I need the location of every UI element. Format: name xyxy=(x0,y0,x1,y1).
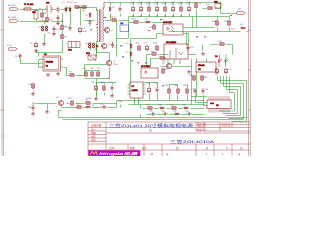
resistor R14 xyxy=(146,4,151,13)
diode D1 snubber xyxy=(85,12,91,18)
svg-text:AC-L(IN): AC-L(IN) xyxy=(8,4,16,7)
wire low-voltage rail into U6 xyxy=(97,82,117,84)
resistor R29 xyxy=(165,85,170,94)
resistor R37 xyxy=(159,57,167,63)
wire opto outputs xyxy=(184,27,187,29)
wire nested loop 1 xyxy=(218,81,247,122)
diode D12 xyxy=(173,111,180,115)
resistor R27 xyxy=(68,98,73,106)
capacitor C10 xyxy=(28,105,35,111)
ground GND5 xyxy=(94,97,97,101)
resistor R11 sense xyxy=(90,68,94,77)
svg-text:U3 PC817: U3 PC817 xyxy=(163,22,173,24)
fuse F1 xyxy=(24,3,34,10)
resistor R18 xyxy=(212,20,218,26)
transistor Q4 xyxy=(162,63,172,69)
resistor R24 xyxy=(154,43,159,52)
transistor Q5 xyxy=(56,97,64,106)
capacitor C11 xyxy=(130,4,135,13)
wire nested loop 3 xyxy=(224,87,241,116)
ground GND3 xyxy=(46,73,49,77)
resistor R35 xyxy=(85,100,91,105)
capacitor C21 xyxy=(108,82,114,91)
value label 10k xyxy=(204,35,206,38)
svg-text:2024-10-10: 2024-10-10 xyxy=(222,123,234,125)
wire nested loop 4 xyxy=(223,90,238,114)
svg-text:U5 PC817: U5 PC817 xyxy=(141,66,151,68)
wire right verticals xyxy=(217,17,219,20)
resistor R1 xyxy=(38,25,44,31)
varistor RV1 xyxy=(46,16,54,22)
wire top-right resistor row xyxy=(196,9,198,27)
capacitor C4 xyxy=(65,25,72,31)
wire TL431 area xyxy=(196,59,198,63)
resistor R7 xyxy=(86,42,91,48)
resistor R9 gate xyxy=(69,72,75,77)
value label 102 xyxy=(148,29,150,32)
capacitor C18 xyxy=(213,68,219,75)
diode D9 xyxy=(85,105,95,108)
diode D6 xyxy=(126,43,132,49)
sheet border right xyxy=(248,0,250,156)
svg-text:LM358: LM358 xyxy=(132,90,139,92)
capacitor C9 xyxy=(15,53,22,59)
bridge rectifier diode D1a xyxy=(62,2,67,13)
junction dots secondary xyxy=(133,2,134,3)
value label 10uF xyxy=(104,16,106,19)
wire nested loop 5 xyxy=(220,93,235,112)
capacitor C17 xyxy=(144,43,149,52)
wire cap drops to loops xyxy=(217,76,219,81)
IC U4 xyxy=(164,42,188,64)
wire bridge to bulk rail xyxy=(77,8,97,11)
resistor R39 xyxy=(218,41,225,45)
connector CN3 24V xyxy=(237,8,245,14)
resistor R16 xyxy=(178,4,183,13)
IC U8 output driver xyxy=(207,96,231,113)
wire AC-L line xyxy=(20,9,25,11)
capacitor C19 xyxy=(224,68,232,75)
snubber RC2 xyxy=(86,53,96,60)
ground GND2 xyxy=(34,49,37,53)
svg-text:AC-N(IN): AC-N(IN) xyxy=(8,16,17,19)
capacitor C23 xyxy=(146,83,151,93)
snubber module RC1 xyxy=(68,42,80,52)
resistor R13 xyxy=(28,83,34,89)
optocoupler U5 xyxy=(141,66,158,78)
capacitor CX2 xyxy=(56,7,59,13)
bridge rectifier diode D1b xyxy=(67,2,74,13)
capacitor C13 xyxy=(154,4,159,13)
resistor R33 xyxy=(189,75,195,81)
wire standby row xyxy=(35,103,57,105)
ground GND4 xyxy=(56,72,59,76)
wire aux winding row xyxy=(90,43,92,51)
resistor R10 sense xyxy=(83,68,88,77)
logo banner xyxy=(88,150,140,156)
value label 100R xyxy=(122,55,124,58)
svg-text:68uF: 68uF xyxy=(82,31,87,33)
wire feedback long row xyxy=(187,27,215,29)
wire secondary mid rail xyxy=(129,16,230,18)
resistor R36 xyxy=(151,51,157,55)
COMPONENTS-RIGHT xyxy=(56,2,246,116)
resistor R17 xyxy=(206,4,213,9)
zone tick marks xyxy=(2,29,4,31)
value label 473 xyxy=(196,35,198,38)
capacitor C15 xyxy=(186,4,191,13)
resistor R38 xyxy=(183,85,188,94)
value label 12V xyxy=(131,59,133,62)
capacitor C8 vcc xyxy=(30,42,38,49)
wire feedback row xyxy=(129,22,134,24)
diode D10 xyxy=(158,105,165,110)
earth ground E1 xyxy=(52,32,56,35)
diode D5 xyxy=(145,19,151,24)
IC U1 PWM controller xyxy=(40,54,63,71)
wire U4 sense drop xyxy=(186,32,188,46)
svg-text:KIA431: KIA431 xyxy=(198,64,205,67)
wire secondary right area xyxy=(147,54,151,56)
MOSFET Q1 xyxy=(106,60,118,65)
resistor R12 sense xyxy=(97,68,102,77)
wire diode rows xyxy=(143,108,147,110)
resistor R6 snubber xyxy=(81,6,87,13)
svg-text:三笠ZOL401 20寸模拟电视电源: 三笠ZOL401 20寸模拟电视电源 xyxy=(109,122,193,128)
capacitor C27 xyxy=(191,88,197,94)
svg-text:设计: 设计 xyxy=(91,128,96,132)
wire top cap stubs xyxy=(133,3,135,6)
capacitor C20 xyxy=(91,82,98,91)
wire vcc feed xyxy=(21,59,39,64)
shunt U6 TL431 xyxy=(196,62,216,72)
capacitor C26 xyxy=(161,111,168,116)
wire 24V branch xyxy=(221,3,237,14)
ground GND10 xyxy=(110,94,113,98)
value label 471 xyxy=(162,84,164,87)
svg-text:数量: 数量 xyxy=(130,146,135,150)
wire snubber row xyxy=(85,20,95,22)
svg-text:2024-10-27: 2024-10-27 xyxy=(222,126,234,128)
COMPONENTS xyxy=(7,2,129,116)
diode D3 xyxy=(195,2,202,8)
wire gate drive xyxy=(64,68,70,76)
svg-text:Mingda电源: Mingda电源 xyxy=(99,151,140,156)
value label 330R xyxy=(90,28,92,31)
svg-text:NTC1: NTC1 xyxy=(110,17,116,19)
wire CX1 taps xyxy=(36,10,38,11)
resistor R21 xyxy=(132,19,139,24)
resistor R30 xyxy=(174,85,179,94)
capacitor C12 xyxy=(138,4,143,13)
connector CN2 AC-N xyxy=(8,16,18,22)
resistor R4 startup xyxy=(61,33,68,39)
resistor R31 xyxy=(146,105,153,110)
resistor R23 xyxy=(136,43,141,52)
wire U6 surroundings xyxy=(144,83,150,88)
resistor R0 xyxy=(41,12,47,18)
capacitor C14 xyxy=(170,4,175,13)
capacitor C24 xyxy=(154,83,159,93)
resistor R34 xyxy=(201,75,208,81)
sheet border left xyxy=(1,0,3,156)
capacitor C7 xyxy=(111,42,118,49)
ground GND8 xyxy=(45,110,48,114)
capacitor C25 xyxy=(149,111,156,116)
wire mid long vertical xyxy=(116,21,118,39)
resistor R8 xyxy=(92,42,98,51)
resistor R25 xyxy=(162,68,169,74)
ground GND11 xyxy=(187,70,190,74)
ground GND7 xyxy=(31,112,34,116)
resistor R2 xyxy=(45,25,51,34)
wire bulk cap taps xyxy=(80,8,82,26)
svg-text:F1 T3.15A: F1 T3.15A xyxy=(24,3,34,6)
capacitor C29 xyxy=(185,111,192,116)
wire bottom bus 2 xyxy=(63,119,244,121)
resistor R15 xyxy=(162,4,167,13)
wire sense resistor rail xyxy=(85,70,101,72)
value label 1N4148 xyxy=(120,44,123,47)
resistor R32 xyxy=(170,105,177,110)
svg-text:项目名称: 项目名称 xyxy=(91,123,102,127)
svg-text:OB2269: OB2269 xyxy=(46,61,54,63)
wire varistor drop xyxy=(47,14,49,17)
svg-text:比例: 比例 xyxy=(109,146,114,150)
IC U2 xyxy=(120,23,129,32)
resistor R26 xyxy=(100,82,105,91)
IC U7 secondary controller xyxy=(128,82,146,98)
transistor Q2 xyxy=(104,27,114,32)
svg-text:VCC1: VCC1 xyxy=(7,45,13,47)
diode D2 output rectifier xyxy=(109,6,122,12)
wire discharge R drop xyxy=(44,22,46,25)
wire U1 left pins xyxy=(39,60,41,68)
value label 2.2k xyxy=(160,18,162,21)
value label 103 xyxy=(137,61,139,64)
svg-text:页次: 页次 xyxy=(142,146,147,150)
LED D9g green xyxy=(224,58,228,66)
optocoupler U3 xyxy=(163,22,183,35)
connector CN1 AC-L xyxy=(8,4,18,10)
resistor R3 startup xyxy=(61,24,68,30)
wire left vertical drops xyxy=(33,91,35,93)
capacitor CY2 xyxy=(56,15,60,25)
wire bus drops xyxy=(59,111,62,118)
wire AC-N line xyxy=(20,21,48,23)
thermistor NTC1 xyxy=(110,17,117,22)
transistor Q3 xyxy=(101,43,111,48)
svg-text:制图: 制图 xyxy=(91,131,96,135)
wire nested loop 2 xyxy=(221,84,244,119)
wire rectifier drop xyxy=(110,3,112,6)
wire U7 bottom stubs xyxy=(135,98,139,105)
wire transformer primary bottom to drain xyxy=(97,43,110,61)
ground GND6 xyxy=(31,92,34,96)
wire source to sense xyxy=(85,67,110,79)
title block frame xyxy=(88,122,250,156)
svg-text:VSB: VSB xyxy=(118,101,123,103)
svg-text:FR107: FR107 xyxy=(67,2,74,4)
wire sense to ground xyxy=(96,79,98,98)
capacitor C22 xyxy=(100,104,107,109)
capacitor C16 xyxy=(186,45,194,51)
junction dots primary xyxy=(39,8,40,9)
diode D11 xyxy=(182,105,189,110)
resistor R19 xyxy=(224,20,230,26)
wire bottom bus 1 xyxy=(59,117,247,119)
inductor LF1 xyxy=(45,3,53,13)
ground GND9 xyxy=(201,52,204,56)
value label 4.7k xyxy=(145,61,147,64)
wire secondary top rail xyxy=(105,2,221,4)
testpoint TP1 xyxy=(7,45,17,50)
capacitor CX1 xyxy=(32,11,38,20)
svg-text:SE L6565D: SE L6565D xyxy=(166,42,177,44)
resistor R28 xyxy=(76,104,82,109)
capacitor C28 xyxy=(201,88,209,94)
capacitor C5 bulk xyxy=(78,27,87,34)
svg-text:三笠ZOL4010A: 三笠ZOL4010A xyxy=(170,139,215,144)
resistor R22 xyxy=(150,24,156,30)
value label 1k xyxy=(230,14,232,17)
diode D13 top right xyxy=(214,2,221,8)
resistor R5 snubber xyxy=(74,3,80,9)
capacitor CY1 xyxy=(52,26,60,32)
diode D7 xyxy=(126,51,132,57)
diode D4 xyxy=(240,24,246,29)
svg-text:批准: 批准 xyxy=(91,138,96,142)
wire startup resistor feed xyxy=(62,22,64,26)
capacitor C6 snubber xyxy=(88,20,91,26)
LED D8 red xyxy=(215,56,222,66)
value label specks xyxy=(90,15,232,86)
transformer T1 xyxy=(96,2,104,48)
ground GND1 xyxy=(42,42,45,46)
wire bus into U6 xyxy=(116,101,118,104)
